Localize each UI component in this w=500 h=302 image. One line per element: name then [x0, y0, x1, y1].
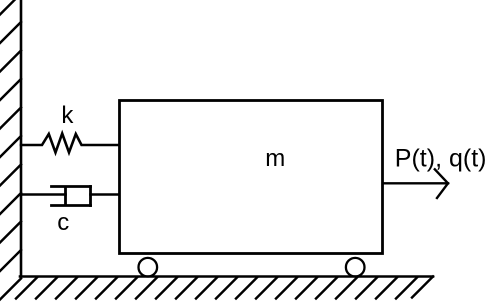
ground line	[20, 275, 433, 278]
force arrow lower barb	[437, 183, 448, 198]
ground hatching	[16, 277, 433, 299]
force arrow upper barb	[435, 169, 448, 183]
mass m rectangle	[120, 101, 383, 254]
roller wheel left	[139, 258, 158, 277]
wall vertical line	[20, 0, 23, 277]
svg-text:c: c	[57, 209, 69, 236]
damper right rod	[91, 193, 120, 196]
damper left rod	[21, 193, 66, 196]
spring k	[21, 134, 119, 153]
damper piston plate	[64, 187, 67, 205]
damper cylinder top wall	[52, 185, 91, 188]
svg-text:m: m	[265, 145, 285, 172]
force arrow shaft	[383, 182, 448, 184]
wall hatching	[0, 0, 21, 301]
damper cylinder right wall	[89, 187, 92, 206]
svg-text:P(t), q(t): P(t), q(t)	[395, 145, 487, 173]
svg-text:k: k	[61, 102, 74, 129]
damper cylinder bottom wall	[52, 204, 91, 207]
roller wheel right	[346, 258, 365, 277]
